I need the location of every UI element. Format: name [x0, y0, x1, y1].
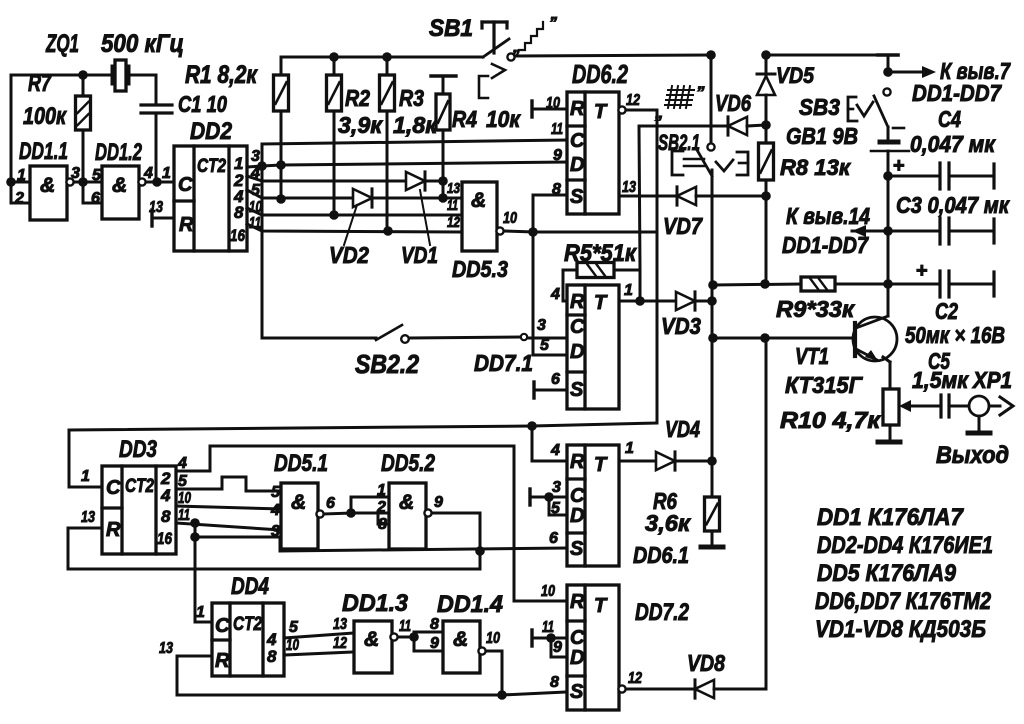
svg-text:&: & — [112, 174, 127, 197]
inverter bubble DD6.2 — [618, 106, 625, 113]
svg-text:3: 3 — [552, 479, 561, 496]
svg-text:DD6,DD7 К176ТМ2: DD6,DD7 К176ТМ2 — [815, 588, 992, 615]
svg-text:R5*51к: R5*51к — [564, 240, 638, 267]
wire — [284, 652, 354, 655]
svg-text:6: 6 — [551, 371, 560, 388]
leader line — [420, 190, 430, 245]
svg-text:DD5.1: DD5.1 — [274, 450, 328, 477]
inverter bubble DD1.3 — [390, 633, 397, 640]
wire — [978, 416, 981, 431]
svg-text:DD1 К176ЛА7: DD1 К176ЛА7 — [817, 504, 965, 531]
svg-text:8: 8 — [161, 507, 171, 526]
svg-text:VD8: VD8 — [687, 650, 725, 676]
wire DD3 C — [69, 430, 102, 487]
svg-text:1: 1 — [196, 604, 205, 621]
resistor R9 — [801, 277, 835, 291]
node junction — [883, 67, 893, 77]
diode VD8 — [695, 680, 714, 698]
svg-text:VT1: VT1 — [795, 343, 829, 369]
svg-text:5: 5 — [289, 619, 299, 636]
arrow к выв.7 — [888, 71, 922, 74]
svg-text:CT2: CT2 — [125, 476, 154, 497]
svg-text:11: 11 — [178, 507, 190, 524]
wire — [11, 181, 30, 184]
capacitor C1 — [141, 103, 172, 106]
svg-text:9: 9 — [434, 494, 443, 511]
svg-text:11: 11 — [447, 197, 458, 214]
switch SB1 bracket — [479, 76, 488, 98]
wire — [146, 181, 174, 184]
svg-text:„: „ — [512, 39, 521, 56]
ground — [878, 440, 900, 445]
svg-text:+: + — [893, 155, 905, 177]
svg-text:10к: 10к — [486, 106, 521, 132]
svg-text:8: 8 — [550, 674, 559, 691]
svg-text:R: R — [106, 519, 121, 541]
svg-text:5: 5 — [92, 167, 102, 184]
svg-text:13: 13 — [333, 616, 347, 633]
wire — [889, 425, 892, 440]
node junction — [760, 333, 770, 343]
wire — [10, 75, 13, 182]
svg-text:VD5: VD5 — [776, 63, 815, 88]
node junction — [708, 280, 718, 290]
svg-text:GB1 9В: GB1 9В — [786, 123, 858, 149]
svg-text:5: 5 — [540, 337, 550, 354]
svg-text:4: 4 — [270, 502, 280, 519]
resistor R7 — [82, 75, 85, 96]
node junction — [276, 194, 286, 204]
reset stub DD6.2 — [530, 101, 533, 117]
node junction — [383, 226, 393, 236]
switch SB1 — [482, 20, 507, 23]
op-amp DD1.3 — [354, 621, 392, 673]
svg-text:R: R — [570, 591, 585, 613]
svg-text:6: 6 — [549, 530, 558, 547]
svg-text:12: 12 — [447, 214, 461, 231]
svg-text:C: C — [106, 477, 121, 499]
resistor R2 — [327, 75, 342, 111]
wire D stub — [533, 354, 567, 357]
node junction — [329, 52, 339, 62]
svg-text:3,9к: 3,9к — [338, 112, 383, 138]
arrow к выв.14 — [852, 230, 888, 233]
node junction — [78, 177, 88, 187]
wire loop to pin8 — [378, 513, 389, 524]
svg-text:5: 5 — [271, 484, 281, 501]
svg-text:DD1.4: DD1.4 — [437, 591, 503, 618]
svg-text:D: D — [570, 154, 584, 176]
svg-text:C: C — [570, 130, 585, 152]
svg-text:DD1-DD7: DD1-DD7 — [782, 232, 869, 258]
diode VD3 — [676, 292, 695, 310]
crystal ZQ1 — [111, 66, 114, 84]
wire battery rail — [887, 231, 890, 284]
svg-text:DD6.1: DD6.1 — [633, 542, 689, 568]
svg-text:SB2.2: SB2.2 — [355, 349, 419, 379]
node junction — [276, 160, 286, 170]
node junction — [475, 546, 485, 556]
svg-text:&: & — [40, 174, 55, 197]
wire DD6.1 R — [532, 426, 567, 461]
wire out9 down — [432, 513, 480, 569]
wire — [284, 633, 354, 638]
svg-text:16: 16 — [157, 529, 172, 548]
node junction — [761, 50, 771, 60]
op-amp DD5.2 — [389, 483, 426, 549]
svg-text:11: 11 — [399, 618, 411, 635]
wire R1 to row4 — [280, 165, 283, 199]
svg-text:DD1.3: DD1.3 — [342, 590, 409, 617]
svg-text:8: 8 — [267, 647, 277, 666]
svg-text:6: 6 — [326, 495, 335, 512]
battery GB1 — [887, 127, 890, 140]
wire pin13 stub — [443, 197, 462, 200]
resistor R8 — [759, 143, 774, 180]
svg-text:S: S — [570, 681, 584, 703]
node junction — [708, 333, 718, 343]
flip-flop DD7.1 — [567, 285, 619, 409]
wire top rail right — [515, 55, 711, 56]
wire top rail — [281, 56, 483, 59]
svg-text:R: R — [179, 214, 194, 236]
svg-text:12: 12 — [628, 670, 642, 687]
svg-text:12: 12 — [333, 635, 347, 652]
svg-text:1,5мк: 1,5мк — [912, 367, 969, 393]
wire out2 to DD7.2 R — [176, 446, 567, 601]
wire VD3-VD4 link — [711, 301, 714, 461]
node junction — [761, 191, 771, 201]
svg-text:VD1-VD8 КД503Б: VD1-VD8 КД503Б — [815, 616, 986, 643]
svg-text:R7: R7 — [28, 70, 52, 97]
wire DD4 C drop — [194, 523, 197, 622]
wire bottom row — [177, 692, 567, 695]
wire loop — [414, 631, 443, 634]
diode VD6 — [728, 117, 747, 135]
svg-text:9: 9 — [553, 639, 562, 656]
svg-text:5: 5 — [178, 473, 188, 490]
node junction — [190, 532, 200, 542]
switch SB2.2 — [262, 337, 376, 340]
svg-text:1,8к: 1,8к — [393, 112, 438, 138]
svg-text:VD2: VD2 — [329, 242, 369, 268]
op-amp DD1.4 — [443, 621, 480, 673]
wire pin13 — [619, 195, 677, 198]
svg-text:1: 1 — [625, 440, 634, 457]
svg-text:D: D — [570, 505, 584, 527]
node junction — [257, 161, 267, 171]
node junction — [382, 52, 392, 62]
wire — [626, 688, 692, 691]
svg-text:C: C — [178, 174, 193, 196]
node junction — [707, 296, 717, 306]
flip-flop DD6.2 — [567, 92, 619, 214]
wire row B — [68, 568, 480, 571]
svg-text:D: D — [570, 341, 584, 363]
op-amp DD1.1 — [30, 166, 67, 220]
wire row out8 — [247, 208, 462, 215]
svg-text:КТ315Г: КТ315Г — [785, 372, 863, 398]
svg-text:C: C — [570, 316, 585, 338]
inverter bubble DD1.2 — [138, 178, 145, 185]
wire collector — [887, 284, 890, 316]
svg-text:3: 3 — [251, 148, 260, 165]
wire to pin2 — [351, 512, 389, 515]
node junction — [707, 456, 717, 466]
svg-text:DD1.1: DD1.1 — [19, 138, 68, 165]
node junction — [883, 171, 893, 181]
svg-text:DD1.2: DD1.2 — [95, 139, 142, 166]
node junction — [190, 518, 200, 528]
svg-text:4: 4 — [160, 486, 171, 505]
svg-text:C: C — [215, 615, 230, 637]
svg-text:„: „ — [654, 103, 664, 122]
svg-text:9: 9 — [430, 635, 439, 652]
svg-text:4: 4 — [177, 455, 187, 472]
svg-text:R8 13к: R8 13к — [780, 155, 852, 180]
svg-text:VD4: VD4 — [665, 416, 700, 442]
node junction — [497, 690, 507, 700]
node junction — [527, 421, 537, 431]
connector XP1 — [969, 396, 989, 416]
svg-text:C2: C2 — [935, 298, 958, 324]
svg-text:C4: C4 — [938, 106, 961, 132]
svg-text:”: ” — [696, 83, 705, 102]
wire — [11, 182, 30, 203]
wire — [324, 513, 351, 514]
wire VD6 down join — [639, 269, 642, 301]
wire emitter — [883, 357, 890, 362]
resistor R4 — [431, 74, 456, 77]
leader line — [344, 205, 357, 245]
op-amp DD5.3 — [462, 182, 497, 251]
node junction — [152, 177, 162, 187]
node junction — [409, 632, 419, 642]
node junction — [78, 70, 88, 80]
node junction — [438, 193, 448, 203]
svg-text:&: & — [291, 491, 306, 514]
wire out4 to DD5.1 — [176, 477, 281, 491]
flip-flop DD7.2 — [567, 585, 619, 710]
diode VD2 — [353, 189, 372, 207]
counter DD4 — [212, 603, 284, 676]
ground — [701, 545, 723, 550]
svg-text:13: 13 — [447, 180, 461, 197]
counter DD3 — [102, 466, 176, 554]
node junction — [883, 279, 893, 289]
svg-text:R10 4,7к: R10 4,7к — [780, 407, 881, 433]
inverter bubble DD1.4 — [478, 647, 485, 654]
svg-text:DD5.2: DD5.2 — [381, 450, 436, 477]
switch SB2.1 wire top — [710, 55, 713, 143]
svg-text:C: C — [570, 627, 585, 649]
svg-text:”: ” — [549, 15, 557, 32]
wire to DD7.1 D — [532, 232, 535, 355]
capacitor C2 — [888, 283, 940, 286]
svg-text:T: T — [594, 101, 608, 123]
wire — [639, 125, 727, 128]
diode VD7 — [677, 187, 696, 205]
wire S stub — [533, 194, 567, 197]
svg-text:16: 16 — [230, 226, 245, 245]
svg-text:R: R — [570, 291, 585, 313]
node junction — [346, 508, 356, 518]
svg-text:D: D — [570, 647, 584, 669]
svg-text:DD7.2: DD7.2 — [635, 599, 690, 626]
resistor R3 — [380, 75, 395, 111]
svg-text:R: R — [570, 451, 585, 473]
svg-text:CT2: CT2 — [197, 156, 226, 177]
svg-text:13: 13 — [159, 640, 173, 657]
wire out1 — [622, 300, 676, 303]
svg-text:ZQ1: ZQ1 — [45, 30, 79, 58]
svg-text:4: 4 — [550, 442, 560, 459]
wire row out2 — [247, 176, 406, 181]
wire — [155, 113, 158, 182]
hatch symbol — [668, 89, 694, 91]
diode VD1 — [406, 172, 425, 190]
svg-text:DD4: DD4 — [231, 573, 269, 600]
svg-text:ХР1: ХР1 — [971, 367, 1012, 393]
svg-text:8: 8 — [378, 516, 387, 533]
svg-text:10: 10 — [486, 630, 500, 647]
wire — [398, 636, 414, 639]
svg-text:К выв.14: К выв.14 — [786, 203, 870, 229]
svg-text:1: 1 — [377, 482, 386, 499]
svg-text:S: S — [570, 379, 584, 401]
svg-text:DD3: DD3 — [119, 436, 158, 463]
svg-text:3,6к: 3,6к — [645, 510, 691, 536]
svg-text:1: 1 — [81, 468, 90, 485]
svg-text:&: & — [453, 628, 468, 651]
svg-text:VD6: VD6 — [715, 90, 751, 116]
svg-text:+: + — [916, 260, 928, 282]
svg-text:&: & — [364, 628, 379, 651]
potentiometer R10 — [883, 389, 899, 425]
svg-text:SB1: SB1 — [429, 15, 473, 42]
svg-text:VD1: VD1 — [401, 242, 438, 268]
svg-text:DD2-DD4 К176ИЕ1: DD2-DD4 К176ИЕ1 — [817, 532, 993, 559]
wire R5 right — [614, 269, 640, 272]
op-amp DD1.2 — [102, 166, 139, 219]
wire — [74, 181, 102, 184]
svg-text:9: 9 — [553, 147, 562, 164]
svg-text:T: T — [594, 292, 608, 314]
svg-text:R1 8,2к: R1 8,2к — [185, 61, 258, 89]
inverter bubble DD5.1 — [316, 510, 323, 517]
wire out1 — [619, 460, 656, 463]
pin 13 reset stub — [150, 210, 153, 226]
cd stub DD6.1 — [528, 489, 531, 505]
capacitor C4 — [888, 175, 940, 178]
svg-text:R: R — [215, 650, 230, 672]
svg-text:13: 13 — [622, 179, 636, 196]
op-amp DD5.1 — [281, 483, 318, 549]
inverter bubble DD5.2 — [424, 509, 431, 516]
svg-text:DD5.3: DD5.3 — [452, 256, 508, 282]
node junction — [883, 226, 893, 236]
svg-text:T: T — [594, 454, 608, 476]
wire feedback row — [69, 423, 656, 430]
wire — [195, 621, 212, 624]
svg-text:S: S — [570, 186, 584, 208]
wire out16 row — [176, 523, 281, 530]
svg-text:R9*33к: R9*33к — [776, 296, 855, 322]
wire vertical to SB2.2 — [261, 144, 264, 338]
svg-text:T: T — [594, 595, 608, 617]
wire top rail to battery — [766, 54, 878, 57]
svg-text:10: 10 — [178, 490, 191, 507]
ground — [968, 431, 990, 436]
diode VD5 — [765, 55, 768, 76]
wire to DD6.2 C — [262, 140, 568, 144]
svg-text:C3 0,047 мк: C3 0,047 мк — [896, 192, 1010, 218]
inverter bubble DD1.1 — [66, 178, 73, 185]
wire Q12 loop — [626, 110, 657, 423]
node junction — [528, 227, 538, 237]
svg-text:12: 12 — [626, 92, 640, 109]
svg-text:1: 1 — [162, 165, 171, 182]
wire — [713, 284, 801, 285]
svg-text:8: 8 — [234, 203, 244, 222]
svg-text:&: & — [399, 491, 414, 514]
svg-text:R4: R4 — [452, 106, 477, 132]
inverter bubble DD5.3 — [496, 227, 503, 234]
power stub — [878, 53, 898, 57]
node junction — [706, 50, 716, 60]
node junction — [761, 120, 771, 130]
node junction — [760, 279, 770, 289]
wire VD8 up — [714, 338, 766, 689]
svg-text:DD5 К176ЛА9: DD5 К176ЛА9 — [817, 560, 957, 587]
svg-text:C: C — [570, 485, 585, 507]
wire base row — [713, 337, 854, 340]
set stub DD7.1 — [532, 382, 535, 398]
resistor R5 — [577, 263, 614, 278]
svg-text:DD1-DD7: DD1-DD7 — [912, 80, 1002, 106]
svg-text:R: R — [570, 98, 585, 120]
svg-text:R2: R2 — [345, 85, 370, 111]
counter DD2 — [174, 146, 247, 251]
wire out8 to DD5.1 — [176, 506, 281, 509]
wire — [129, 74, 156, 77]
wire row out16 — [247, 224, 462, 232]
cd stub DD7.2 — [530, 630, 533, 646]
svg-text:8: 8 — [430, 616, 439, 633]
wire row out4 — [247, 190, 353, 198]
node junction — [329, 210, 339, 220]
resistor R6 — [711, 461, 714, 497]
svg-text:0,047 мк: 0,047 мк — [910, 131, 996, 157]
wire — [504, 231, 533, 232]
wire — [83, 182, 102, 203]
svg-text:Выход: Выход — [936, 442, 1009, 469]
svg-text:DD2: DD2 — [190, 118, 233, 145]
switch SB3 — [883, 88, 890, 95]
wire — [11, 74, 112, 77]
wire loop to pin1 — [351, 497, 389, 513]
svg-text:10: 10 — [541, 583, 555, 600]
svg-text:11: 11 — [551, 121, 563, 138]
node junction — [438, 176, 448, 186]
wire S loop — [533, 231, 657, 234]
wire — [528, 337, 567, 340]
svg-text:R3: R3 — [399, 85, 424, 111]
svg-text:100к: 100к — [23, 103, 68, 130]
svg-text:SB3: SB3 — [799, 94, 840, 120]
node A — [6, 177, 16, 187]
inverter bubble DD7.2 — [618, 685, 625, 692]
